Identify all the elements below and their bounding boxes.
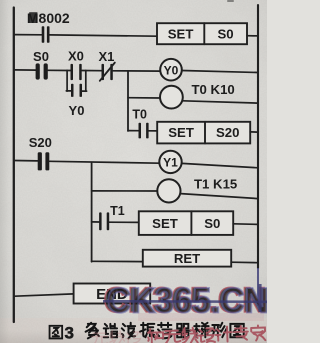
wire box to right rail (rung3): [233, 223, 258, 226]
wire RET box to right rail: [231, 261, 258, 264]
contact Y0 (parallel): [71, 84, 82, 97]
svg-text:S0: S0: [204, 216, 220, 231]
faint red text under caption: [92, 331, 141, 343]
box SET S20 (rung2): [157, 122, 250, 144]
contact T1: [99, 212, 109, 230]
svg-text:3: 3: [65, 324, 74, 343]
contact X1 normally-closed: [102, 64, 113, 80]
wire X0 to X1: [82, 70, 101, 72]
svg-text:S0: S0: [33, 49, 49, 64]
wire rung2 from left rail: [15, 69, 36, 71]
wire X1 to coil Y0: [113, 70, 160, 72]
wire box to right rail (rung1): [247, 35, 258, 37]
wire rung1 to SET box: [50, 35, 157, 36]
contact X0: [71, 64, 82, 80]
right power rail: [257, 5, 259, 268]
caption characters duo-xie-bo-zhen-dang-qi-ti-xing-tu: [86, 323, 244, 339]
wire contact T1 to box: [109, 221, 139, 223]
svg-text:RET: RET: [174, 251, 200, 266]
svg-text:S0: S0: [218, 26, 234, 41]
contact S0 (thick bars): [36, 63, 48, 79]
box SET S0 (rung1): [157, 23, 247, 44]
wire coil Y1 to right rail: [182, 163, 258, 167]
svg-text:SET: SET: [152, 216, 178, 231]
parallel branch bottom wire right: [82, 90, 87, 92]
wire branch to contact T1: [92, 221, 99, 223]
wire S0 to X0: [48, 69, 70, 71]
timer coil T1: [157, 179, 180, 202]
contact T0: [139, 123, 149, 139]
svg-text:Y0: Y0: [164, 63, 179, 77]
watermark CK365.CN: [103, 268, 269, 321]
contact S20 (thick bars): [38, 152, 50, 170]
box RET: [143, 250, 231, 267]
box END: [74, 284, 151, 304]
svg-text:T0: T0: [132, 108, 147, 122]
left power rail: [13, 8, 15, 323]
wire contact T0 to box: [149, 130, 158, 132]
caption 图3: [50, 326, 63, 339]
wire T1 to right rail: [181, 194, 258, 199]
svg-text:SET: SET: [168, 125, 194, 140]
wire branch to RET box: [92, 260, 143, 262]
coil Y0: [160, 59, 182, 81]
wire rung4 from left rail: [15, 294, 74, 296]
wire coil Y0 to right rail: [182, 71, 258, 73]
box SET S0 (rung3): [139, 211, 233, 235]
wire branch to timer T1: [92, 190, 158, 192]
coil Y1: [159, 151, 181, 173]
wire T0 to right rail: [183, 101, 258, 103]
parallel branch left vertical: [66, 70, 68, 91]
slash of X1 NC contact: [100, 63, 115, 81]
wire S20 to coil Y1: [50, 161, 160, 163]
svg-text:X0: X0: [68, 49, 84, 64]
parallel branch right vertical: [85, 71, 87, 92]
svg-text:S20: S20: [29, 135, 52, 150]
branch vertical rung2: [127, 71, 129, 131]
wire rung3 from left rail: [15, 160, 38, 162]
svg-text:Y0: Y0: [69, 103, 85, 118]
stray scan mark top edge: [228, 0, 233, 2]
wire rung1 from left rail: [15, 34, 42, 36]
svg-text:SET: SET: [168, 26, 194, 41]
svg-text:T0 K10: T0 K10: [192, 82, 235, 97]
wire branch to contact T0: [128, 130, 138, 132]
wire branch to timer T0: [128, 97, 160, 99]
svg-text:T1 K15: T1 K15: [194, 176, 237, 191]
svg-text:S20: S20: [216, 125, 239, 140]
contact M8002: [42, 26, 50, 43]
red watermark text bottom right: [148, 325, 265, 343]
parallel branch bottom wire left: [66, 90, 71, 92]
svg-text:Y1: Y1: [163, 156, 178, 170]
svg-text:X1: X1: [98, 49, 114, 64]
branch vertical rung3: [91, 163, 93, 262]
wire box S20 to right rail: [250, 131, 258, 133]
timer coil T0: [160, 86, 183, 109]
svg-text:T1: T1: [110, 204, 125, 218]
